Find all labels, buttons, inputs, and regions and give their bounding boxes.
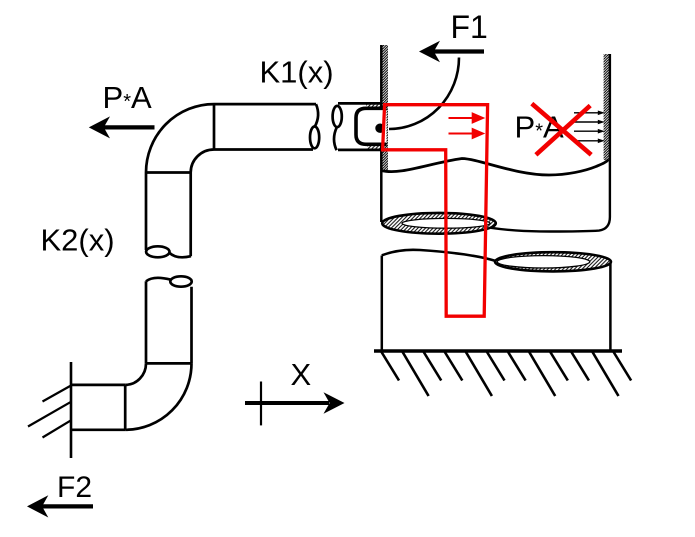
svg-text:K2(x): K2(x)	[41, 222, 115, 257]
svg-text:F2: F2	[57, 471, 92, 504]
svg-text:F1: F1	[451, 9, 488, 45]
svg-text:K1(x): K1(x)	[260, 54, 334, 89]
svg-text:X: X	[291, 357, 312, 392]
